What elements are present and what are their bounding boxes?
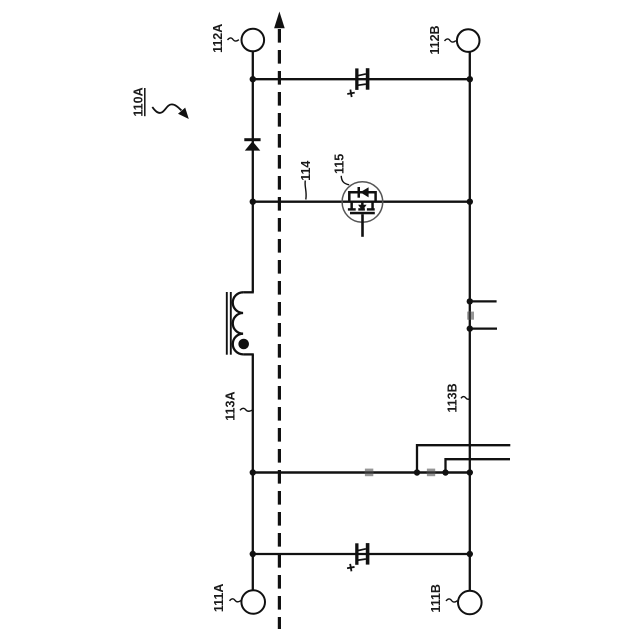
connector pin stub (right bus, lower) xyxy=(470,327,497,329)
gray component box 1 on lower rail xyxy=(365,469,374,477)
junction dot left-mid rail xyxy=(250,199,256,205)
junction dot left-lower rail xyxy=(250,469,256,475)
transformer winding 113A: arcs xyxy=(233,292,243,354)
label 110A xyxy=(131,87,145,116)
tap wire 1 (up and right from lower rail) xyxy=(417,445,510,472)
connector pin stub (right bus, upper) xyxy=(470,300,497,302)
MOSFET body-diode bridge xyxy=(349,192,375,202)
MOSFET body-diode triangle xyxy=(360,187,368,197)
gray component box on right bus xyxy=(467,311,474,320)
svg-text:113A: 113A xyxy=(224,391,238,420)
leader 113B xyxy=(461,397,470,400)
transformer winding 113A: top connector xyxy=(243,291,254,293)
plus polarity mark (top capacitor) xyxy=(347,89,356,98)
polarized capacitor (bottom rail) xyxy=(355,543,369,565)
svg-text:112B: 112B xyxy=(428,25,442,54)
leader wavy arrow for 110A xyxy=(152,104,189,119)
transformer core lines xyxy=(226,292,228,355)
terminal 111B xyxy=(458,591,482,615)
winding polarity dot xyxy=(238,339,249,350)
junction dot left-top rail xyxy=(250,76,256,82)
MOSFET channel segments xyxy=(348,208,356,210)
svg-text:113B: 113B xyxy=(445,383,459,412)
wire: top rail xyxy=(253,78,470,80)
svg-text:111A: 111A xyxy=(212,584,226,613)
leader 111A xyxy=(230,599,241,602)
wire: left bus (top section) xyxy=(252,51,254,292)
terminal 112A xyxy=(242,29,265,52)
svg-text:114: 114 xyxy=(299,161,313,181)
wire: lower rail xyxy=(253,471,470,473)
MOSFET drain contact stub xyxy=(350,202,353,209)
junction dot right-top rail xyxy=(467,76,473,82)
leader 115 xyxy=(341,176,349,185)
junction dot connector stub upper xyxy=(467,298,473,304)
plus polarity mark (bottom capacitor) xyxy=(346,563,355,572)
wire: left bus (bottom section) xyxy=(252,354,254,590)
MOSFET body arrow xyxy=(358,205,367,211)
wire: mid rail (node 114) xyxy=(253,200,470,202)
junction dot right-mid rail xyxy=(467,199,473,205)
polarized capacitor (top rail) xyxy=(355,68,369,90)
wire: bottom rail xyxy=(253,553,470,555)
junction dot right-lower rail xyxy=(467,469,473,475)
svg-text:112A: 112A xyxy=(211,24,225,53)
terminal 111A xyxy=(241,590,265,614)
terminal 112B xyxy=(457,29,480,52)
leader 111B xyxy=(446,599,457,602)
junction dot tap 2 xyxy=(442,469,448,475)
MOSFET source contact stub xyxy=(371,202,374,209)
svg-text:111B: 111B xyxy=(429,584,443,613)
leader 112A xyxy=(228,38,239,41)
svg-text:115: 115 xyxy=(332,154,346,174)
junction dot left-bottom rail xyxy=(250,551,256,557)
junction dot tap 1 xyxy=(414,469,420,475)
svg-text:110A: 110A xyxy=(131,87,145,116)
gray component box 2 on lower rail xyxy=(427,469,436,477)
junction dot right-bottom rail xyxy=(467,551,473,557)
transformer winding 113A: bottom connector xyxy=(243,353,254,355)
dashed boundary line with arrow (isolation barrier) xyxy=(274,12,285,630)
leader 114 xyxy=(305,181,306,200)
MOSFET U115 body circle xyxy=(342,182,383,223)
leader 112B xyxy=(445,39,456,42)
MOSFET gate plate xyxy=(350,212,375,215)
junction dot connector stub lower xyxy=(467,325,473,331)
MOSFET body-diode cathode bar xyxy=(358,187,361,198)
MOSFET gate lead xyxy=(361,214,364,237)
MOSFET body contact stub xyxy=(361,202,364,206)
leader 113A xyxy=(240,408,253,411)
diode (on left bus) xyxy=(244,138,260,150)
wire: right bus xyxy=(469,52,471,591)
tap wire 2 (up and right from lower rail) xyxy=(446,459,511,472)
